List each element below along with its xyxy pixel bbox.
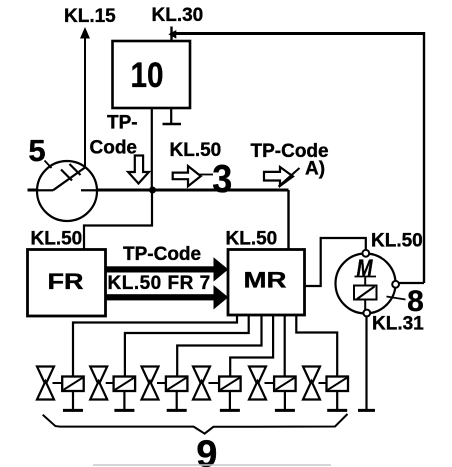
svg-text:TP-Code: TP-Code <box>123 244 201 265</box>
brace valve block 9 <box>43 414 348 434</box>
leader to 8 <box>387 297 406 300</box>
wire MR pin5 to valve 5 <box>284 315 286 377</box>
pump bottom node <box>363 310 370 317</box>
svg-text:5: 5 <box>28 133 45 168</box>
valve group 6 <box>303 367 348 411</box>
junction dot on bus <box>149 187 156 194</box>
valve group 4 <box>193 367 241 411</box>
box MR (main control unit) <box>228 250 305 316</box>
box 10 (control unit) <box>113 41 191 108</box>
svg-text:3: 3 <box>212 158 232 201</box>
pump M symbol <box>355 255 377 282</box>
valve group 2 <box>90 367 135 411</box>
wire MR pin1 to valve 1 <box>73 315 237 377</box>
svg-text:Code: Code <box>90 138 138 159</box>
svg-text:KL.50: KL.50 <box>371 231 423 252</box>
pump right node <box>392 281 399 288</box>
arrow KL.50 hollow right arrow <box>173 166 201 186</box>
pump motor 8 circle <box>336 254 396 314</box>
ground bar pump <box>358 409 375 412</box>
ignition switch 5 <box>37 161 97 221</box>
wire right edge vertical (KL.30 to pump) <box>423 32 425 283</box>
svg-text:10: 10 <box>131 56 164 95</box>
wire pump to ground <box>365 316 367 409</box>
wire MR to pump top node <box>305 238 366 286</box>
valve group 1 <box>37 367 84 411</box>
arrowhead KL.30 into box 10 <box>168 30 176 39</box>
wire slash to A) <box>279 168 300 187</box>
faint bottom rule <box>93 464 331 466</box>
wire stub to 3 <box>199 174 214 176</box>
wire right edge to pump right node <box>398 282 424 284</box>
leader from 5 to switch <box>45 161 52 169</box>
pump internal element (rect with diagonal) <box>354 278 377 311</box>
arrow TP-Code hollow right arrow <box>264 167 293 186</box>
wire bus to MR (KL.50) <box>287 190 289 250</box>
pump top node <box>362 250 369 257</box>
label TP-Code (into bus) <box>90 113 138 159</box>
wire KL.15 arrow up <box>80 27 90 168</box>
wire MR pin6 to valve 6 <box>296 315 337 377</box>
svg-text:9: 9 <box>196 434 217 467</box>
svg-text:FR: FR <box>48 269 84 294</box>
svg-text:TP-: TP- <box>107 113 138 134</box>
wire MR pin2 to valve 2 <box>125 315 249 377</box>
thick arrow KL.50 FR 7 FR to MR <box>106 285 229 309</box>
valve group 5 <box>249 367 296 411</box>
svg-text:KL.31: KL.31 <box>372 314 424 335</box>
wire junction to FR (KL.50) <box>84 190 152 250</box>
svg-text:MR: MR <box>244 268 287 293</box>
wire KL.30 stub into box 10 <box>170 27 172 42</box>
svg-text:KL.50 FR 7: KL.50 FR 7 <box>108 273 211 294</box>
svg-text:KL.50: KL.50 <box>226 229 278 250</box>
svg-text:A): A) <box>305 159 325 180</box>
valve group 3 <box>142 367 188 411</box>
box FR (front control unit) <box>28 250 106 317</box>
svg-text:KL.15: KL.15 <box>64 6 116 27</box>
thick arrow TP-Code FR to MR <box>106 257 229 281</box>
svg-text:KL.50: KL.50 <box>31 229 83 250</box>
wire MR pin4 to valve 4 <box>230 315 273 377</box>
arrow TP-Code hollow down arrow <box>128 156 149 184</box>
wire MR pin3 to valve 3 <box>177 315 261 377</box>
svg-text:KL.30: KL.30 <box>152 5 204 26</box>
wire box10 pin to bus <box>151 108 153 190</box>
ground below box 10 <box>163 108 182 124</box>
wire KL.30 horizontal to right edge <box>171 32 424 35</box>
main bus wire KL.50 <box>28 189 289 192</box>
